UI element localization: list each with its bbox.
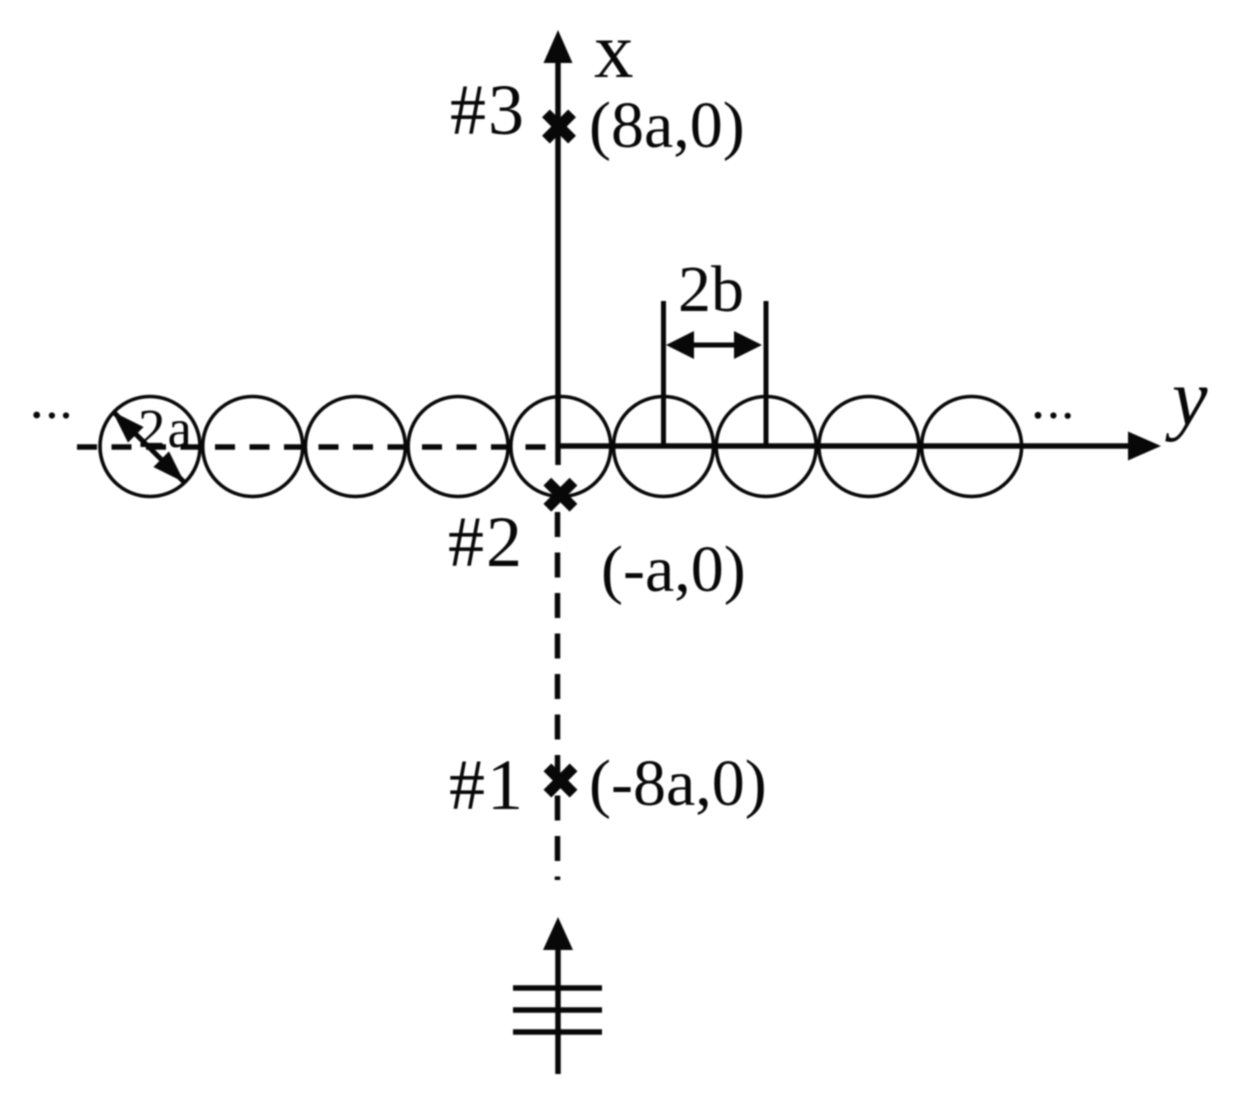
2a upper-left arrowhead bbox=[113, 412, 144, 443]
wavefront line 2 bbox=[513, 1007, 602, 1013]
right ellipsis dots bbox=[1035, 412, 1071, 419]
cylinder circle 4 bbox=[408, 397, 508, 497]
svg-text:y: y bbox=[1165, 355, 1208, 443]
cylinder circle 2 bbox=[203, 397, 303, 497]
svg-text:2a: 2a bbox=[138, 398, 194, 459]
cylinder circle 7 bbox=[716, 397, 816, 497]
x-axis shaft bbox=[555, 58, 561, 465]
2a diameter arrow shaft bbox=[113, 412, 184, 483]
2b left tick bbox=[661, 301, 666, 446]
svg-text:(8a,0): (8a,0) bbox=[589, 89, 745, 162]
svg-text:#1: #1 bbox=[449, 745, 525, 825]
source marker #2 cross bbox=[534, 469, 586, 521]
cylinder circle 5 (origin) bbox=[511, 397, 611, 497]
2a lower-right arrowhead bbox=[153, 451, 184, 482]
cylinder circle 1 bbox=[100, 397, 200, 497]
wavefront line 3 bbox=[513, 1029, 602, 1035]
2b left arrowhead bbox=[666, 331, 694, 359]
svg-text:#3: #3 bbox=[450, 70, 526, 150]
source marker #3 cross bbox=[533, 100, 585, 152]
svg-text:(-a,0): (-a,0) bbox=[601, 533, 746, 606]
incident wave arrow shaft bbox=[555, 945, 561, 1074]
left ellipsis dots bbox=[33, 412, 69, 419]
y-axis shaft bbox=[558, 443, 1132, 449]
dashed y-axis (negative side) bbox=[77, 444, 558, 450]
svg-text:(-8a,0): (-8a,0) bbox=[589, 747, 767, 820]
2b right tick bbox=[764, 301, 769, 446]
y-axis arrowhead bbox=[1128, 432, 1161, 461]
source marker #1 cross bbox=[534, 754, 586, 806]
incident wave arrowhead bbox=[543, 917, 573, 950]
2b double arrow shaft bbox=[680, 343, 748, 348]
cylinder circle 9 bbox=[922, 397, 1022, 497]
svg-text:x: x bbox=[594, 8, 634, 95]
cylinder circle 3 bbox=[305, 397, 405, 497]
cylinder circle 6 bbox=[614, 397, 714, 497]
2b right arrowhead bbox=[734, 331, 762, 359]
cylinder circle 8 bbox=[819, 397, 919, 497]
wavefront line 1 bbox=[513, 985, 602, 991]
dashed x-axis (negative side, vertical) bbox=[555, 512, 561, 880]
svg-text:2b: 2b bbox=[678, 253, 744, 326]
svg-text:#2: #2 bbox=[448, 502, 524, 582]
x-axis arrowhead bbox=[544, 30, 573, 63]
